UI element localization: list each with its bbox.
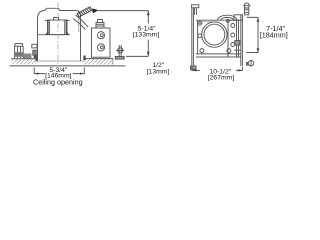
svg-text:[13mm]: [13mm] [147,68,170,75]
svg-text:[184mm]: [184mm] [260,30,288,39]
svg-text:[267mm]: [267mm] [208,74,235,81]
svg-text:[133mm]: [133mm] [133,31,160,38]
svg-text:Ceiling opening: Ceiling opening [33,78,83,87]
